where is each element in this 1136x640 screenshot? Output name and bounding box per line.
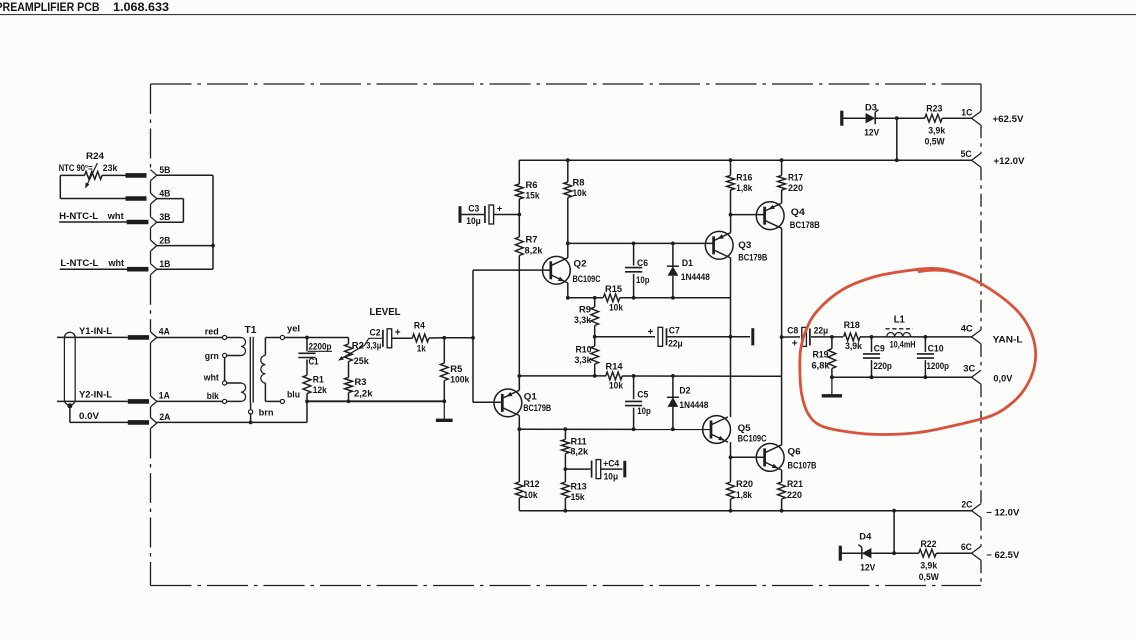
- svg-text:grn: grn: [205, 351, 219, 362]
- svg-text:R12: R12: [524, 479, 540, 490]
- svg-text:Q6: Q6: [788, 447, 801, 458]
- svg-text:0.0V: 0.0V: [79, 411, 100, 422]
- svg-text:15k: 15k: [571, 492, 586, 503]
- svg-text:22μ: 22μ: [668, 339, 683, 350]
- svg-text:2B: 2B: [159, 235, 170, 246]
- svg-text:12V: 12V: [860, 563, 876, 574]
- svg-text:H-NTC-L: H-NTC-L: [59, 211, 98, 222]
- svg-text:4B: 4B: [159, 188, 170, 199]
- svg-text:PREAMPLIFIER PCB: PREAMPLIFIER PCB: [0, 2, 100, 14]
- svg-text:R2: R2: [352, 341, 364, 352]
- svg-text:R1: R1: [313, 374, 325, 385]
- svg-text:R13: R13: [571, 482, 587, 493]
- svg-text:220p: 220p: [873, 361, 892, 372]
- svg-text:1200p: 1200p: [927, 361, 950, 372]
- svg-text:2C: 2C: [961, 500, 972, 511]
- svg-text:1C: 1C: [961, 107, 972, 118]
- svg-text:1k: 1k: [417, 344, 427, 355]
- svg-text:6C: 6C: [961, 542, 972, 553]
- svg-text:R24: R24: [86, 151, 105, 162]
- svg-text:yel: yel: [287, 324, 300, 335]
- svg-text:R4: R4: [414, 320, 426, 331]
- svg-text:R6: R6: [526, 180, 538, 191]
- svg-text:LEVEL: LEVEL: [370, 306, 402, 318]
- svg-text:0,0V: 0,0V: [993, 373, 1013, 384]
- svg-text:Q4: Q4: [791, 207, 806, 218]
- svg-text:R17: R17: [788, 172, 803, 183]
- svg-text:10k: 10k: [573, 188, 588, 199]
- svg-text:C10: C10: [928, 343, 944, 354]
- svg-text:8,2k: 8,2k: [525, 245, 544, 256]
- svg-text:brn: brn: [259, 408, 274, 419]
- svg-text:L1: L1: [894, 314, 905, 325]
- svg-text:25k: 25k: [354, 356, 370, 367]
- svg-text:R3: R3: [355, 377, 367, 388]
- svg-text:5B: 5B: [159, 165, 170, 176]
- svg-text:Q2: Q2: [574, 259, 587, 270]
- svg-text:3,9k: 3,9k: [845, 341, 863, 352]
- svg-text:8,2k: 8,2k: [570, 447, 589, 458]
- svg-text:BC179B: BC179B: [738, 252, 767, 263]
- svg-text:C9: C9: [874, 343, 885, 354]
- svg-text:− 12.0V: − 12.0V: [986, 507, 1020, 518]
- svg-text:C5: C5: [637, 389, 649, 400]
- svg-text:Q3: Q3: [738, 240, 751, 251]
- svg-text:2A: 2A: [159, 412, 170, 423]
- svg-text:R14: R14: [606, 362, 624, 373]
- svg-text:1N4448: 1N4448: [681, 272, 710, 283]
- svg-text:R19: R19: [813, 349, 829, 360]
- svg-text:2,2k: 2,2k: [354, 388, 373, 399]
- svg-text:10μ: 10μ: [604, 471, 619, 482]
- svg-text:10k: 10k: [609, 381, 624, 392]
- svg-text:+12.0V: +12.0V: [994, 156, 1026, 167]
- svg-text:D1: D1: [682, 258, 694, 269]
- svg-text:3,9k: 3,9k: [920, 561, 938, 572]
- svg-text:23k: 23k: [103, 163, 118, 174]
- svg-text:+62.5V: +62.5V: [993, 114, 1025, 125]
- svg-text:1,8k: 1,8k: [736, 490, 753, 501]
- svg-text:NTC 90°=: NTC 90°=: [59, 163, 93, 173]
- svg-text:6,8k: 6,8k: [812, 360, 831, 371]
- svg-text:R15: R15: [605, 284, 623, 295]
- svg-text:3,3k: 3,3k: [575, 355, 593, 366]
- svg-text:BC109C: BC109C: [738, 433, 767, 444]
- svg-text:3,3k: 3,3k: [574, 315, 592, 326]
- svg-text:3,9k: 3,9k: [928, 125, 946, 136]
- svg-text:R21: R21: [787, 479, 804, 490]
- svg-text:C6: C6: [637, 258, 648, 269]
- svg-text:10μ: 10μ: [466, 216, 481, 227]
- svg-text:1.068.633: 1.068.633: [113, 2, 169, 14]
- svg-text:T1: T1: [245, 325, 257, 336]
- svg-text:22μ: 22μ: [814, 325, 829, 336]
- svg-text:0,5W: 0,5W: [925, 137, 945, 148]
- svg-text:R23: R23: [926, 103, 942, 114]
- svg-text:BC107B: BC107B: [788, 460, 817, 471]
- svg-text:+: +: [792, 338, 798, 349]
- svg-text:15k: 15k: [526, 191, 541, 202]
- svg-text:BC109C: BC109C: [573, 274, 601, 285]
- svg-text:1B: 1B: [159, 259, 170, 270]
- svg-text:BC178B: BC178B: [790, 220, 820, 231]
- svg-text:R20: R20: [736, 479, 753, 490]
- svg-text:C1: C1: [309, 356, 320, 367]
- svg-text:10p: 10p: [636, 275, 650, 286]
- svg-text:Q1: Q1: [524, 391, 538, 402]
- svg-text:3,3μ: 3,3μ: [366, 340, 381, 351]
- svg-text:10k: 10k: [524, 490, 539, 501]
- svg-text:10p: 10p: [637, 406, 651, 417]
- svg-text:1A: 1A: [159, 390, 170, 401]
- svg-text:R8: R8: [573, 178, 585, 189]
- svg-text:wht: wht: [107, 211, 125, 222]
- svg-text:4C: 4C: [961, 323, 973, 334]
- svg-text:1N4448: 1N4448: [679, 400, 708, 411]
- svg-text:BC179B: BC179B: [523, 403, 551, 414]
- svg-text:D2: D2: [679, 386, 690, 397]
- svg-text:12k: 12k: [313, 385, 328, 396]
- svg-text:100k: 100k: [450, 374, 470, 385]
- svg-text:+: +: [648, 327, 654, 338]
- svg-text:red: red: [205, 326, 219, 337]
- svg-text:12V: 12V: [864, 128, 880, 139]
- svg-text:3B: 3B: [159, 212, 170, 223]
- svg-text:Y2-IN-L: Y2-IN-L: [79, 390, 112, 401]
- svg-text:220: 220: [788, 183, 803, 194]
- svg-text:3C: 3C: [963, 364, 975, 375]
- svg-text:wht: wht: [108, 258, 125, 269]
- svg-text:R22: R22: [921, 539, 937, 550]
- svg-text:5C: 5C: [961, 149, 972, 160]
- svg-text:1,8k: 1,8k: [736, 183, 753, 194]
- svg-text:YAN-L: YAN-L: [993, 334, 1023, 345]
- svg-text:+C4: +C4: [603, 458, 620, 469]
- svg-text:4A: 4A: [159, 326, 170, 337]
- svg-text:10k: 10k: [609, 302, 624, 313]
- svg-text:C7: C7: [669, 325, 680, 336]
- svg-text:R7: R7: [526, 235, 538, 246]
- svg-text:10,4mH: 10,4mH: [890, 340, 916, 351]
- svg-text:D3: D3: [865, 102, 877, 113]
- svg-text:+: +: [395, 327, 401, 338]
- svg-text:+: +: [497, 204, 503, 215]
- svg-text:220: 220: [787, 490, 802, 501]
- svg-text:C3: C3: [468, 203, 479, 214]
- svg-text:− 62.5V: − 62.5V: [986, 550, 1020, 561]
- svg-text:0,5W: 0,5W: [919, 572, 939, 583]
- svg-text:wht: wht: [203, 373, 220, 384]
- svg-text:R18: R18: [844, 320, 860, 331]
- svg-text:D4: D4: [859, 531, 872, 542]
- svg-text:blu: blu: [287, 390, 300, 401]
- svg-text:C2: C2: [370, 328, 381, 339]
- svg-text:Y1-IN-L: Y1-IN-L: [79, 326, 112, 337]
- svg-text:blk: blk: [207, 391, 220, 402]
- svg-text:R16: R16: [736, 172, 752, 183]
- svg-text:C8: C8: [787, 325, 798, 336]
- svg-text:L-NTC-L: L-NTC-L: [60, 258, 98, 269]
